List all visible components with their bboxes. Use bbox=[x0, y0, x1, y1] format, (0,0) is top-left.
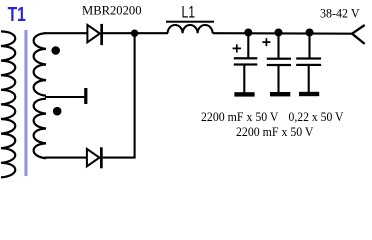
capacitor C2 plus sign bbox=[262, 38, 270, 46]
phase dot bottom bbox=[53, 107, 62, 116]
wire: D1 cathode to junction bbox=[103, 32, 136, 34]
output fork connector bbox=[352, 25, 365, 44]
transformer T1 primary winding bbox=[1, 31, 15, 177]
wire: junction to L1 bbox=[135, 32, 168, 34]
capacitor C3 0,22 x 50 V bbox=[296, 33, 321, 97]
svg-text:MBR20200: MBR20200 bbox=[82, 4, 142, 18]
transformer secondary top winding bbox=[34, 33, 46, 95]
capacitor C1 2200 mF x 50 V bbox=[234, 33, 257, 97]
junction dot C3 bbox=[306, 29, 314, 37]
capacitor C2 2200 mF x 50 V bbox=[267, 33, 291, 97]
phase dot top bbox=[51, 46, 60, 55]
wire: secondary bottom to diode D2 bbox=[45, 157, 88, 159]
center tap wire bbox=[45, 96, 85, 98]
svg-text:L1: L1 bbox=[182, 3, 196, 21]
wire: riser D2 output to top junction bbox=[134, 33, 136, 157]
svg-text:0,22 x 50 V: 0,22 x 50 V bbox=[289, 109, 345, 124]
center tap terminal bar bbox=[84, 88, 87, 104]
diode D1 MBR20200 bbox=[87, 24, 103, 45]
svg-text:T1: T1 bbox=[8, 3, 26, 26]
wire: L1 to output fork bbox=[213, 32, 352, 35]
wire: secondary top to diode D1 bbox=[45, 32, 88, 34]
inductor L1 core bar bbox=[166, 21, 214, 23]
junction dot D1/D2 output bbox=[131, 30, 138, 37]
junction dot C1 bbox=[244, 29, 252, 37]
transformer secondary bottom winding bbox=[34, 99, 46, 159]
inductor L1 bbox=[168, 25, 213, 33]
svg-text:2200 mF x 50 V: 2200 mF x 50 V bbox=[201, 109, 279, 124]
svg-text:2200 mF x 50 V: 2200 mF x 50 V bbox=[236, 124, 314, 139]
wire: D2 cathode to riser bbox=[103, 157, 136, 159]
capacitor C1 plus sign bbox=[233, 44, 241, 52]
diode D2 MBR20200 bbox=[87, 147, 103, 168]
svg-text:38-42 V: 38-42 V bbox=[320, 6, 360, 21]
transformer core bbox=[24, 30, 27, 176]
junction dot C2 bbox=[275, 29, 283, 37]
